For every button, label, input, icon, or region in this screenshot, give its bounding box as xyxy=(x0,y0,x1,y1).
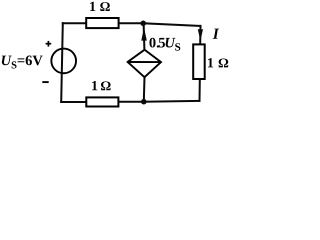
wire right branch lower (R3 bottom to bottom wire) xyxy=(199,80,201,101)
wire bottom-left segment (corner to R2 left) xyxy=(61,101,85,103)
node b junction dot xyxy=(140,21,146,27)
wire middle branch lower (dependent source bottom to node c) xyxy=(143,77,146,102)
voltage source Us circle xyxy=(51,49,76,74)
wire middle branch upper (node b to dependent source top) xyxy=(143,23,146,49)
dependent source diamond middle bar xyxy=(128,61,161,63)
dependent source arrow head (points up toward node b) xyxy=(141,27,147,40)
svg-text:1Ω: 1Ω xyxy=(91,78,111,94)
wire top-left segment (node a to R1 left) xyxy=(63,22,86,24)
resistor R3 1 ohm (right) xyxy=(193,44,205,79)
svg-text:1Ω: 1Ω xyxy=(89,0,111,15)
wire bottom-right segment (node c to right corner) xyxy=(144,100,200,103)
dependent current source diamond 0.5Us xyxy=(128,50,161,77)
minus sign of voltage source xyxy=(42,81,48,83)
wire top-right segment (node b to right branch corner) xyxy=(143,23,200,26)
svg-text:US=6V: US=6V xyxy=(1,53,44,71)
plus sign of voltage source xyxy=(46,41,52,47)
wire left branch vertical (through source circle) xyxy=(61,23,63,102)
wire top-middle segment (R1 right to node b) xyxy=(119,22,143,24)
wire right branch upper (corner to R3 top, current I flows here) xyxy=(199,26,201,44)
wire bottom-middle segment (R2 right to node c) xyxy=(119,101,143,103)
svg-text:0.5US: 0.5US xyxy=(149,35,181,53)
svg-text:I: I xyxy=(212,26,220,43)
node c junction dot xyxy=(141,99,147,105)
svg-text:1Ω: 1Ω xyxy=(207,55,229,71)
resistor R1 1 ohm (top) xyxy=(86,18,118,28)
resistor R2 1 ohm (bottom) xyxy=(86,97,118,106)
current I arrow head (points down into R3) xyxy=(198,29,203,41)
